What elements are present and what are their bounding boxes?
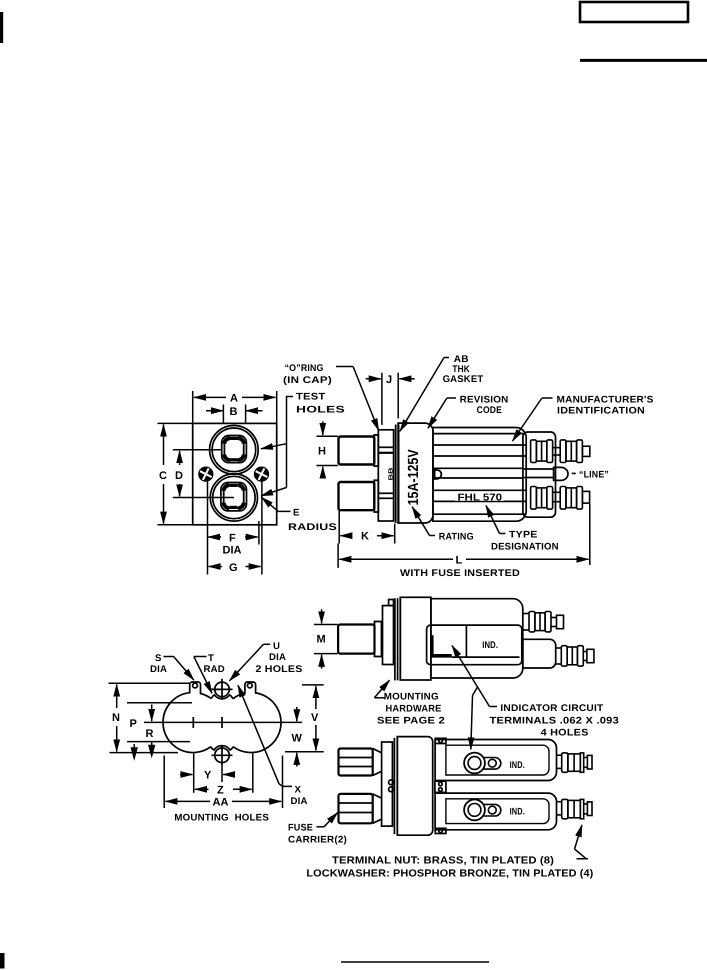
svg-text:BB: BB bbox=[388, 467, 395, 481]
dim B arrows bbox=[206, 410, 223, 412]
svg-text:WITH FUSE INSERTED: WITH FUSE INSERTED bbox=[400, 568, 520, 579]
lower ext lines bbox=[193, 754, 195, 793]
bottom terminal plate bbox=[523, 639, 556, 668]
AB gasket leader bbox=[444, 357, 449, 359]
label 15A-125V (rating marking) bbox=[406, 449, 423, 506]
dim F/G extension lines bbox=[207, 482, 209, 575]
svg-text:DIA: DIA bbox=[150, 664, 167, 675]
svg-text:TERMINALS .062 X .093: TERMINALS .062 X .093 bbox=[490, 715, 620, 726]
X leader bbox=[238, 685, 279, 784]
view4 leaders bbox=[317, 813, 589, 859]
panel plate outline bbox=[193, 423, 277, 524]
dim B extension lines bbox=[222, 405, 224, 423]
svg-text:TYPE: TYPE bbox=[509, 530, 538, 541]
svg-text:MOUNTING HOLES: MOUNTING HOLES bbox=[174, 813, 269, 824]
dim W arrows bbox=[296, 707, 298, 721]
mounting hole U top (with crosshair) bbox=[215, 682, 230, 697]
view3 dims/leaders bbox=[314, 609, 497, 749]
test hole screw right bbox=[255, 467, 269, 481]
terminal stud top (view 3) bbox=[523, 612, 564, 632]
dim V arrows bbox=[302, 684, 324, 686]
dim A extension lines bbox=[192, 391, 194, 423]
svg-text:MANUFACTURER'S: MANUFACTURER'S bbox=[557, 395, 654, 406]
outline bbox=[163, 682, 281, 753]
U leader bbox=[264, 643, 271, 645]
svg-text:W: W bbox=[292, 733, 303, 745]
mounting hole U bottom (with crosshair) bbox=[215, 748, 230, 763]
dim J extension lines bbox=[381, 373, 383, 425]
test holes (screws) bbox=[199, 467, 268, 481]
T leader bbox=[194, 656, 207, 658]
svg-text:IND.: IND. bbox=[482, 640, 498, 651]
bottom terminal bbox=[531, 487, 590, 510]
svg-text:M: M bbox=[317, 634, 326, 646]
gasket bbox=[395, 425, 397, 524]
S DIA key holes bbox=[193, 683, 198, 688]
svg-text:IDENTIFICATION: IDENTIFICATION bbox=[557, 406, 645, 417]
svg-text:B: B bbox=[230, 406, 238, 418]
svg-text:U: U bbox=[273, 641, 280, 652]
dim C extension lines bbox=[158, 422, 193, 424]
LINE lug bbox=[524, 468, 554, 470]
knob 2 lip bbox=[374, 480, 378, 512]
cover plate bbox=[523, 432, 556, 517]
svg-text:CARRIER(2): CARRIER(2) bbox=[288, 834, 347, 845]
svg-text:A: A bbox=[230, 393, 238, 405]
dim G arrows bbox=[209, 566, 222, 568]
svg-text:FHL 570: FHL 570 bbox=[458, 493, 503, 504]
revision code leader bbox=[447, 397, 456, 399]
type designation leader bbox=[500, 533, 506, 535]
dim L extension/arrows bbox=[337, 544, 339, 568]
dim J arrows bbox=[366, 378, 381, 380]
svg-text:MOUNTING: MOUNTING bbox=[384, 691, 439, 702]
dim N arrows bbox=[116, 685, 118, 699]
dim P arrow bbox=[151, 705, 153, 722]
svg-text:CODE: CODE bbox=[477, 405, 503, 416]
svg-text:LOCKWASHER: PHOSPHOR BRONZE, T: LOCKWASHER: PHOSPHOR BRONZE, TIN PLATED … bbox=[306, 869, 593, 880]
svg-text:H: H bbox=[318, 445, 326, 457]
terminals bbox=[557, 753, 593, 772]
svg-text:15A-125V: 15A-125V bbox=[406, 449, 423, 506]
collar plate bbox=[382, 742, 393, 826]
view2 dimensions bbox=[109, 644, 324, 808]
svg-text:HARDWARE: HARDWARE bbox=[386, 703, 442, 714]
E RADIUS leader bbox=[278, 510, 290, 512]
collar / bushing bbox=[378, 430, 393, 521]
dim C arrows bbox=[163, 425, 165, 465]
svg-text:G: G bbox=[229, 562, 238, 574]
fuse cap 1 (top circle) bbox=[210, 426, 259, 475]
top tube bbox=[435, 740, 556, 781]
svg-text:J: J bbox=[386, 374, 392, 386]
dim A arrows bbox=[194, 396, 226, 398]
dim AA arrows bbox=[165, 800, 210, 802]
center marks on centerline bbox=[192, 717, 194, 728]
svg-text:DIA: DIA bbox=[269, 652, 286, 663]
svg-text:2 HOLES: 2 HOLES bbox=[256, 664, 303, 675]
hinge blocks bbox=[435, 738, 446, 743]
svg-text:R: R bbox=[146, 728, 154, 740]
svg-text:RATING: RATING bbox=[439, 532, 474, 543]
front flange bbox=[398, 423, 433, 523]
body bbox=[431, 599, 523, 678]
indicator window bbox=[427, 625, 522, 665]
svg-text:P: P bbox=[130, 718, 137, 730]
top terminal bbox=[531, 440, 590, 463]
svg-text:X: X bbox=[295, 785, 302, 796]
label FHL 570 (type marking) bbox=[455, 492, 504, 501]
svg-text:“LINE”: “LINE” bbox=[579, 470, 609, 481]
dim F arrows bbox=[208, 536, 221, 538]
bottom tube bbox=[435, 793, 556, 830]
svg-text:K: K bbox=[361, 531, 369, 543]
svg-text:(IN CAP): (IN CAP) bbox=[283, 375, 332, 386]
svg-text:S: S bbox=[155, 653, 162, 664]
dim H arrows bbox=[322, 421, 324, 435]
svg-text:REVISION: REVISION bbox=[460, 395, 509, 406]
dim Y arrows bbox=[180, 774, 193, 776]
TEST HOLES leader bbox=[287, 397, 294, 488]
svg-text:Y: Y bbox=[204, 770, 212, 782]
mounting nut plate bbox=[383, 606, 394, 665]
page corner marks bbox=[0, 12, 3, 43]
svg-text:IND.: IND. bbox=[510, 807, 525, 818]
flange bbox=[397, 737, 432, 836]
fuse cap 2 (bottom circle) bbox=[210, 474, 257, 521]
svg-text:Z: Z bbox=[217, 785, 224, 797]
svg-text:INDICATOR CIRCUIT: INDICATOR CIRCUIT bbox=[500, 703, 603, 714]
svg-text:TERMINAL NUT: BRASS, TIN PLATE: TERMINAL NUT: BRASS, TIN PLATED (8) bbox=[332, 856, 554, 867]
svg-text:RAD: RAD bbox=[204, 664, 225, 675]
svg-text:F: F bbox=[229, 532, 236, 544]
svg-text:D: D bbox=[175, 470, 183, 482]
svg-text:RADIUS: RADIUS bbox=[288, 522, 338, 533]
knob 1 lip bbox=[374, 435, 378, 466]
dim Z arrows bbox=[195, 788, 209, 790]
view1 dimensions bbox=[158, 391, 294, 575]
svg-text:“O”RING: “O”RING bbox=[285, 363, 324, 374]
dim D extension lines (cap centerlines) bbox=[173, 449, 222, 451]
knob 1 bbox=[339, 437, 375, 465]
svg-text:IND.: IND. bbox=[510, 760, 525, 771]
svg-text:L: L bbox=[456, 554, 463, 566]
manufacturer's id leader bbox=[542, 397, 553, 399]
svg-text:DESIGNATION: DESIGNATION bbox=[491, 542, 559, 553]
svg-text:GASKET: GASKET bbox=[443, 374, 484, 385]
indicator circuit leader (forked) bbox=[490, 706, 498, 708]
svg-text:FUSE: FUSE bbox=[288, 822, 313, 833]
knob (fuse cap side) bbox=[338, 625, 374, 654]
indicator lamp assemblies bbox=[464, 753, 501, 821]
dim R arrows bbox=[151, 743, 153, 756]
test hole screw left bbox=[199, 467, 213, 481]
gasket bbox=[393, 738, 395, 834]
dim K extension/arrows bbox=[338, 511, 340, 544]
svg-text:T: T bbox=[208, 653, 214, 664]
mounting hardware leader bbox=[374, 697, 385, 699]
svg-text:DIA: DIA bbox=[291, 796, 308, 807]
indicator mark (thick L) bbox=[432, 635, 452, 656]
knob 2 bbox=[339, 482, 375, 510]
body with ribs bbox=[433, 428, 526, 522]
S leader bbox=[164, 656, 174, 658]
svg-text:TEST: TEST bbox=[296, 392, 326, 403]
svg-text:N: N bbox=[112, 712, 120, 724]
dim D arrows bbox=[179, 451, 181, 465]
fuse window bottom bbox=[221, 483, 247, 511]
carriers bbox=[339, 749, 373, 776]
view1b dimensions & leaders bbox=[316, 358, 589, 568]
svg-text:4 HOLES: 4 HOLES bbox=[541, 727, 589, 738]
svg-text:DIA: DIA bbox=[223, 544, 242, 556]
D window bbox=[435, 470, 442, 479]
svg-text:C: C bbox=[159, 470, 167, 482]
svg-text:AA: AA bbox=[213, 797, 229, 809]
bushing lines bbox=[394, 598, 396, 680]
dim H extension lines bbox=[316, 435, 338, 437]
svg-text:HOLES: HOLES bbox=[296, 404, 346, 415]
front section bbox=[400, 597, 431, 680]
O-ring leader bbox=[336, 366, 353, 368]
rating leader bbox=[430, 535, 436, 537]
svg-text:E: E bbox=[293, 508, 300, 519]
svg-text:SEE PAGE 2: SEE PAGE 2 bbox=[377, 715, 445, 726]
fuse window top bbox=[222, 436, 247, 463]
svg-text:V: V bbox=[311, 712, 319, 724]
